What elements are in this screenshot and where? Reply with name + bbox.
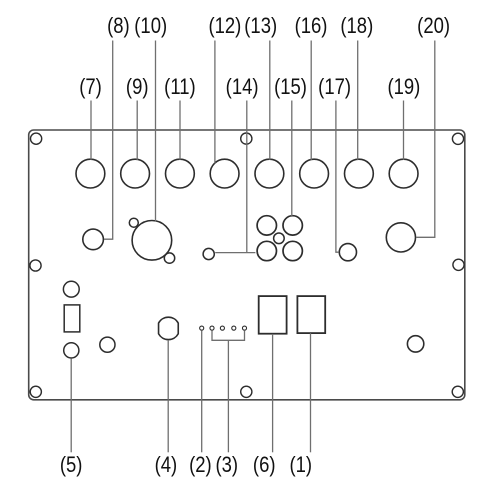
knob (7) xyxy=(76,159,105,188)
XLR screw hole top-left xyxy=(129,218,138,227)
mounting hole top-right xyxy=(452,133,463,144)
leader line (13) xyxy=(269,41,271,160)
svg-text:(5): (5) xyxy=(60,454,83,478)
mounting hole middle-left xyxy=(30,260,41,271)
leader line (10) xyxy=(155,41,157,222)
panel outline xyxy=(29,130,465,400)
knob (19) xyxy=(389,159,418,188)
leader line (2) xyxy=(201,331,203,453)
speaker cluster circle top-left (15 group) xyxy=(257,216,276,235)
svg-text:(14): (14) xyxy=(226,76,259,100)
jack circle (17) xyxy=(339,244,356,261)
LED dot 4 xyxy=(232,326,236,330)
bracket for (3) xyxy=(212,331,245,341)
leader line (4) xyxy=(167,340,169,452)
jack circle (20) xyxy=(386,223,415,252)
speaker cluster circle center xyxy=(274,233,285,244)
fuse holder rectangle xyxy=(64,305,80,332)
leader line (7) xyxy=(90,101,92,160)
jack circle (14) xyxy=(203,248,214,259)
knob (12) xyxy=(210,159,239,188)
leader line (20) xyxy=(416,41,435,238)
leader line (14) xyxy=(246,101,248,253)
knob (9) xyxy=(121,159,150,188)
LED dot 1 (2) xyxy=(200,326,204,330)
svg-text:(11): (11) xyxy=(164,76,195,100)
speaker cluster circle bottom-right xyxy=(283,241,302,260)
svg-text:(15): (15) xyxy=(274,76,307,100)
connector rectangle (6) xyxy=(259,296,287,334)
svg-text:(12): (12) xyxy=(208,15,241,39)
XLR screw hole bottom-right xyxy=(164,253,174,263)
speaker cluster circle top-right xyxy=(283,216,302,235)
leader line (18) xyxy=(357,41,359,160)
svg-text:(3): (3) xyxy=(216,454,239,478)
svg-text:(7): (7) xyxy=(79,76,102,100)
svg-text:(13): (13) xyxy=(244,15,277,39)
knob (16) xyxy=(300,159,329,188)
LED dot 5 xyxy=(242,326,246,330)
leader line (5) xyxy=(70,359,72,453)
LED dot 3 xyxy=(220,326,224,330)
svg-text:(2): (2) xyxy=(189,454,212,478)
leader line (8) xyxy=(104,41,113,240)
svg-text:(18): (18) xyxy=(340,15,373,39)
knob (13) xyxy=(255,159,284,188)
LED dot 2 xyxy=(210,326,214,330)
leader line (19) xyxy=(403,101,405,160)
leader line (9) xyxy=(136,101,138,161)
wire from circle (14) to cluster xyxy=(215,252,255,254)
unlabeled circle right xyxy=(407,336,423,352)
leader line (3) xyxy=(227,340,229,452)
jack circle (8) xyxy=(83,229,104,250)
knob (18) xyxy=(345,159,374,188)
mounting hole top-left xyxy=(30,133,41,144)
XLR connector (10) main circle xyxy=(132,221,172,261)
mounting hole bottom-right xyxy=(452,386,463,397)
svg-text:(1): (1) xyxy=(290,454,313,478)
svg-text:(19): (19) xyxy=(387,76,420,100)
mounting hole bottom-middle xyxy=(241,386,252,397)
fuse group top circle xyxy=(63,281,79,297)
svg-text:(4): (4) xyxy=(155,454,178,478)
speaker cluster circle bottom-left xyxy=(257,241,276,260)
leader line (16) xyxy=(310,41,312,161)
leader line (12) xyxy=(214,41,216,164)
mounting hole middle-right xyxy=(453,259,464,270)
svg-text:(10): (10) xyxy=(134,15,167,39)
fuse group bottom circle (5) xyxy=(64,343,79,358)
leader line (17) xyxy=(336,101,339,253)
svg-text:(16): (16) xyxy=(295,15,328,39)
leader line (15) xyxy=(291,101,293,217)
D-shaped switch hole (4) xyxy=(159,317,179,339)
mounting hole bottom-left xyxy=(30,386,41,397)
leader line (6) xyxy=(272,334,274,452)
svg-text:(8): (8) xyxy=(107,15,130,39)
svg-text:(17): (17) xyxy=(318,76,351,100)
leader line (1) xyxy=(310,333,312,452)
circle beside fuse group xyxy=(100,337,115,352)
mounting hole top-middle xyxy=(241,133,252,144)
svg-text:(20): (20) xyxy=(417,15,450,39)
svg-text:(6): (6) xyxy=(253,454,276,478)
leader line (11) xyxy=(179,101,181,160)
svg-text:(9): (9) xyxy=(126,76,149,100)
connector rectangle (1) xyxy=(297,296,325,333)
knob (11) xyxy=(166,159,195,188)
